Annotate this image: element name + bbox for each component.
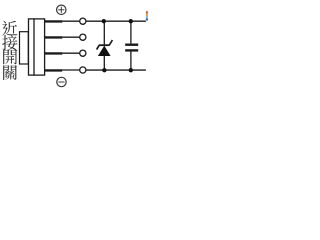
capacitor bottom lead wire (130, 52, 132, 71)
zener diode bottom lead wire (103, 56, 105, 71)
right-edge clipped colored artifact (146, 11, 148, 20)
zener cathode bent tip left (97, 45, 100, 49)
pin 2 thick bar (45, 36, 62, 38)
zener cathode bar (99, 44, 110, 46)
terminal circle row 2 (80, 34, 86, 40)
pin 4 thick bar (45, 69, 62, 71)
capacitor top lead wire (130, 21, 132, 43)
connector body (tall box) (29, 19, 45, 75)
zener diode top lead wire (103, 21, 105, 45)
capacitor plate 1 (125, 44, 138, 46)
pin 1 thick bar (45, 20, 62, 22)
junction dot top rail at capacitor (129, 19, 133, 23)
capacitor plate 2 (125, 49, 138, 51)
connector inner divider line (33, 18, 35, 75)
junction dot bottom rail at capacitor (129, 68, 133, 72)
zener cathode bent tip right (109, 40, 112, 45)
positive supply symbol circled plus (57, 5, 66, 14)
zener diode triangle (anode) (98, 46, 111, 56)
connector flange (small left box) (20, 32, 29, 64)
top rail wire (86, 20, 146, 22)
negative supply symbol circled minus (57, 77, 66, 86)
junction dot bottom rail at zener (102, 68, 106, 72)
pin 2 wire to terminal (62, 36, 80, 38)
label: vertical text 近接開關 (proximity switch) (2, 21, 17, 80)
pin 3 thick bar (45, 52, 62, 54)
pin 1 wire to terminal (62, 20, 80, 22)
pin 4 wire to terminal (62, 69, 80, 71)
bottom rail wire (86, 69, 146, 71)
pin 3 wire to terminal (62, 52, 80, 54)
terminal circle row 4 (80, 67, 86, 73)
terminal circle row 3 (80, 50, 86, 56)
junction dot top rail at zener (102, 19, 106, 23)
terminal circle row 1 (80, 18, 86, 24)
